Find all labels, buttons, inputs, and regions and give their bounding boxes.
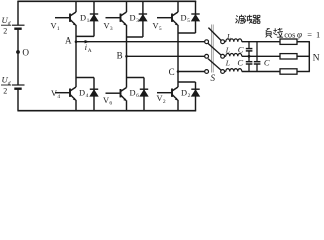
svg-text:2: 2 — [3, 27, 7, 36]
resistor load phase A — [280, 39, 297, 44]
svg-text:d: d — [8, 21, 11, 27]
wire left dc link upper — [17, 1, 19, 25]
wire phase C to load — [242, 71, 280, 73]
transistor V1 — [55, 1, 76, 25]
label D1 — [80, 13, 90, 24]
transistor V6 — [106, 56, 127, 101]
diode D5 — [191, 1, 199, 33]
svg-text:A: A — [88, 48, 92, 54]
svg-text:C: C — [169, 67, 175, 77]
svg-text:3: 3 — [110, 26, 113, 32]
inductor L phase A — [225, 39, 242, 42]
wire resistor A to bus — [297, 41, 310, 43]
battery upper Ud/2 — [12, 25, 25, 29]
inductor L phase B — [225, 54, 242, 57]
label V6 — [103, 96, 112, 107]
capacitor C between A and C — [254, 42, 261, 72]
svg-text:cos: cos — [284, 30, 295, 39]
svg-text:4: 4 — [57, 94, 60, 100]
svg-text:d: d — [8, 80, 11, 86]
label D6 — [130, 88, 140, 99]
label D3 — [130, 13, 140, 24]
svg-text:1: 1 — [316, 30, 320, 39]
label D2 — [181, 89, 191, 100]
svg-text:L: L — [225, 58, 230, 67]
capacitor C between B and C — [246, 56, 253, 71]
svg-text:N: N — [313, 53, 320, 64]
svg-text:6: 6 — [109, 101, 112, 107]
switch SA — [205, 28, 225, 44]
diode D6 — [140, 78, 148, 111]
diode D3 — [139, 1, 147, 37]
resistor load phase C — [280, 69, 297, 74]
node O — [16, 50, 20, 54]
transistor V5 — [157, 1, 178, 25]
svg-text:2: 2 — [188, 93, 191, 99]
svg-text:L: L — [226, 32, 231, 41]
wire V3 emitter to phase B — [126, 25, 128, 57]
wire jog leg1 lower — [76, 77, 94, 79]
transistor V3 — [106, 1, 127, 25]
svg-text:C: C — [264, 57, 270, 67]
wire V2 emitter to bottom rail — [177, 100, 179, 111]
svg-text:O: O — [22, 48, 29, 58]
node phase B junction — [125, 55, 128, 58]
label V5 — [153, 22, 162, 33]
svg-text:2: 2 — [163, 99, 166, 105]
svg-text:1: 1 — [87, 18, 90, 24]
svg-text:D: D — [130, 88, 136, 97]
label D4 — [79, 88, 89, 99]
label Ud/2 upper — [1, 15, 11, 36]
svg-text:5: 5 — [159, 26, 162, 32]
svg-text:φ: φ — [297, 29, 302, 39]
svg-text:C: C — [238, 44, 244, 54]
switch SC — [205, 59, 225, 74]
wire phase B line — [127, 55, 205, 57]
svg-text:1: 1 — [57, 26, 60, 32]
wire resistor C to bus — [297, 71, 310, 73]
wire jog leg2 upper — [127, 36, 143, 38]
label V3 — [104, 22, 113, 33]
battery lower Ud/2 — [12, 85, 25, 89]
inductor L phase C — [225, 69, 242, 72]
svg-text:D: D — [80, 13, 86, 22]
svg-text:C: C — [237, 57, 243, 67]
node phase C junction — [177, 70, 180, 73]
wire jog leg1 upper — [76, 35, 94, 37]
svg-text:L: L — [225, 45, 230, 54]
wire phase A to load — [242, 41, 280, 43]
wire resistor B to bus — [297, 55, 310, 57]
svg-text:=: = — [307, 30, 312, 39]
node cap tap on B — [248, 55, 251, 58]
switch SB — [205, 43, 225, 58]
transistor V2 — [157, 72, 178, 101]
wire V6 emitter to bottom rail — [126, 100, 128, 110]
svg-text:5: 5 — [187, 18, 190, 24]
wire lower battery to bottom rail — [17, 89, 19, 111]
wire phase B to load — [242, 55, 280, 57]
label V2 — [157, 94, 166, 105]
label D5 — [181, 13, 191, 24]
wire jog leg3 upper — [178, 32, 196, 34]
wire jog leg3 lower — [178, 81, 196, 83]
svg-text:V: V — [103, 96, 109, 105]
svg-text:6: 6 — [136, 93, 139, 99]
wire top rail — [17, 0, 196, 2]
svg-text:D: D — [181, 13, 187, 22]
wire phase C line — [178, 71, 205, 73]
svg-text:D: D — [181, 89, 187, 98]
wire between batteries — [17, 29, 19, 85]
label 负载 load (drawn glyphs) — [266, 28, 284, 37]
svg-text:D: D — [79, 88, 85, 97]
svg-text:V: V — [51, 89, 57, 98]
label Ud/2 lower — [1, 75, 11, 96]
wire V5 emitter to phase C — [177, 25, 179, 72]
capacitor C between A and B — [246, 42, 253, 57]
wire bottom rail — [17, 110, 196, 112]
svg-text:S: S — [211, 73, 216, 83]
wire phase A line — [76, 41, 205, 43]
svg-text:V: V — [104, 22, 110, 31]
label V1 — [51, 22, 60, 33]
svg-text:A: A — [65, 36, 72, 46]
label iA — [85, 42, 92, 54]
wire neutral bus N — [308, 42, 310, 72]
transistor V4 — [55, 42, 76, 101]
wire V1 emitter to phase A — [75, 25, 77, 42]
svg-text:D: D — [130, 13, 136, 22]
label 滤波器 filter (drawn glyphs) — [236, 15, 261, 24]
diode D2 — [191, 82, 199, 111]
label V4 — [51, 89, 60, 100]
svg-text:2: 2 — [3, 86, 7, 95]
arrow iA current — [85, 40, 90, 43]
diode D1 — [90, 1, 98, 36]
svg-text:V: V — [153, 22, 159, 31]
switch S linkage — [211, 25, 213, 73]
svg-text:4: 4 — [86, 93, 89, 99]
resistor load phase B — [280, 54, 297, 59]
svg-text:B: B — [117, 51, 123, 61]
wire jog leg2 lower — [127, 77, 145, 79]
svg-text:V: V — [157, 94, 163, 103]
diode D4 — [90, 78, 98, 111]
wire V4 emitter to bottom rail — [75, 100, 77, 111]
svg-text:3: 3 — [136, 18, 139, 24]
node phase A junction — [75, 40, 78, 43]
svg-text:V: V — [51, 22, 57, 31]
